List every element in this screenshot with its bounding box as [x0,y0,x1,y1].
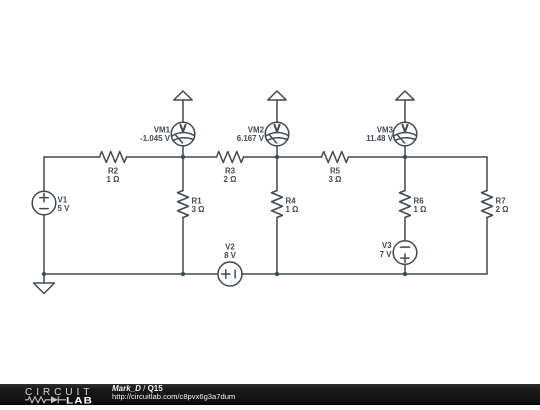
svg-text:5 V: 5 V [58,204,71,213]
wire R1 column lower [182,218,184,275]
voltmeter VM2 [237,122,289,146]
wire top segment between R3 and R5 [244,156,322,158]
svg-text:3 Ω: 3 Ω [329,175,342,184]
junction dot top VM2 [275,155,279,159]
wire right column lower [486,218,488,275]
wire from flag to VM3 [404,100,406,122]
wire left column upper [43,157,45,191]
svg-text:LAB: LAB [66,396,93,405]
svg-text:2 Ω: 2 Ω [496,205,509,214]
junction dot bottom R1 [181,272,185,276]
svg-text:-1.045 V: -1.045 V [140,134,171,143]
ground [34,283,55,294]
plot title [112,385,163,393]
voltage source V3 [380,241,417,265]
junction dot bottom V3 [403,272,407,276]
resistor R5 [322,152,349,184]
junction dot top VM1 [181,155,185,159]
junction dot top VM3 [403,155,407,159]
resistor R3 [217,152,244,184]
wire R1 column upper [182,157,184,191]
wire top segment between R2 and R3 [127,156,217,158]
svg-text:1 Ω: 1 Ω [107,175,120,184]
footer bar [0,384,540,405]
svg-text:1 Ω: 1 Ω [286,205,299,214]
wire from flag to VM1 [182,100,184,122]
svg-text:1 Ω: 1 Ω [414,205,427,214]
wire left column lower [43,215,45,274]
svg-text:2 Ω: 2 Ω [224,175,237,184]
wire top segment left [44,156,100,158]
node flag above VM1 [174,91,192,100]
svg-text:3 Ω: 3 Ω [192,205,205,214]
resistor R7 [482,191,509,218]
resistor R1 [178,191,205,218]
resistor R2 [100,152,127,184]
voltage source V1 [32,191,70,215]
svg-text:7 V: 7 V [380,250,393,259]
wire from VM1 to top wire [182,146,184,157]
resistor R4 [272,191,299,218]
plot url [112,393,235,401]
wire from VM2 to top wire [276,146,278,157]
svg-text:11.48 V: 11.48 V [366,134,394,143]
wire right column upper [486,157,488,191]
svg-text:6.167 V: 6.167 V [237,134,265,143]
wire bottom segment right of V2 [242,273,487,275]
node flag above VM2 [268,91,286,100]
resistor R6 [400,191,427,218]
wire ground stub [43,274,45,283]
wire V3 to bottom wire [404,264,406,274]
wire between R6 and V3 [404,218,406,241]
svg-text:8 V: 8 V [224,251,237,260]
wire R6 column upper [404,157,406,191]
svg-text:V3: V3 [382,241,392,250]
junction dot bottom left [42,272,46,276]
wire R4 column upper [276,157,278,191]
wire from flag to VM2 [276,100,278,122]
wire top segment right [349,156,488,158]
voltmeter VM3 [366,122,417,146]
wire R4 column lower [276,218,278,275]
node flag above VM3 [396,91,414,100]
voltage source V2 [218,243,242,286]
CircuitLab logo [22,384,102,405]
wire from VM3 to top wire [404,146,406,157]
voltmeter VM1 [140,122,195,146]
wire bottom segment left [44,273,218,275]
junction dot bottom R4 [275,272,279,276]
